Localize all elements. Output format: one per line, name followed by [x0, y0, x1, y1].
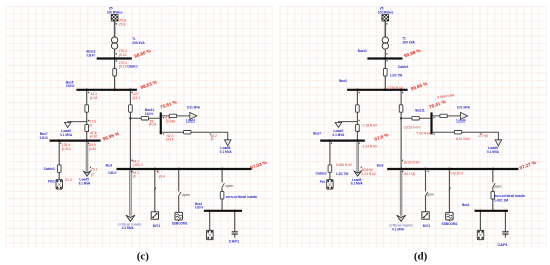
svg-text:0.38 kV: 0.38 kV	[66, 84, 75, 88]
svg-text:(c): (c)	[137, 250, 150, 262]
svg-text:Load4: Load4	[186, 119, 195, 123]
svg-text:Cable2: Cable2	[316, 171, 327, 175]
svg-text:0.1 MVA: 0.1 MVA	[487, 150, 499, 154]
svg-text:7.42 N kV: 7.42 N kV	[416, 131, 431, 135]
svg-text:Bus3: Bus3	[377, 163, 384, 167]
svg-text:0.1 MVA: 0.1 MVA	[220, 150, 232, 154]
svg-text:BVC1: BVC1	[423, 224, 431, 228]
svg-text:-j151.3: -j151.3	[133, 163, 143, 167]
svg-text:200 kVA: 200 kVA	[132, 41, 145, 45]
svg-text:1-3/C 750: 1-3/C 750	[390, 74, 402, 78]
svg-text:j0: j0	[88, 124, 92, 128]
svg-text:0.38 kV: 0.38 kV	[145, 112, 154, 116]
svg-text:Cable2: Cable2	[44, 167, 55, 171]
svg-text:open: open	[182, 193, 190, 197]
svg-text:CAP1: CAP1	[229, 240, 239, 244]
svg-text:0.1 MVA: 0.1 MVA	[333, 133, 345, 137]
svg-text:open: open	[225, 184, 233, 188]
svg-text:6.31 N kV: 6.31 N kV	[456, 137, 471, 141]
svg-text:100 MVAsc: 100 MVAsc	[378, 11, 394, 15]
svg-text:0: 0	[157, 170, 159, 174]
svg-text:j0: j0	[91, 172, 95, 176]
svg-text:-0.7+j0: -0.7+j0	[478, 134, 488, 138]
svg-text:200 kVA: 200 kVA	[403, 40, 416, 44]
svg-text:0+j120.4: 0+j120.4	[451, 171, 464, 175]
svg-text:13.02 N kV: 13.02 N kV	[403, 161, 420, 165]
svg-text:-23.62 N kV: -23.62 N kV	[403, 126, 421, 130]
svg-text:0.084 N kV: 0.084 N kV	[336, 163, 353, 167]
svg-text:0.1 MVA: 0.1 MVA	[351, 182, 363, 186]
svg-text:51.3: 51.3	[65, 178, 72, 182]
svg-text:open: open	[426, 192, 434, 196]
svg-text:j4.19: j4.19	[148, 123, 156, 127]
svg-text:-j0.4: -j0.4	[158, 175, 165, 179]
svg-text:Bus12: Bus12	[358, 49, 367, 53]
svg-text:2.03 N kV: 2.03 N kV	[361, 172, 376, 176]
svg-text:1-3/C 1M: 1-3/C 1M	[494, 199, 508, 203]
svg-text:100 MVAsc: 100 MVAsc	[107, 11, 123, 15]
svg-text:0.01 MVA: 0.01 MVA	[187, 105, 200, 109]
svg-text:non-critical loads: non-critical loads	[494, 194, 525, 198]
svg-text:Cable1: Cable1	[398, 65, 409, 69]
svg-text:-j5.13: -j5.13	[118, 65, 126, 69]
svg-text:BVC1: BVC1	[153, 224, 161, 228]
svg-text:0.38 kV: 0.38 kV	[195, 206, 204, 210]
svg-text:j0.114: j0.114	[61, 147, 71, 151]
svg-text:Bus7: Bus7	[313, 132, 321, 136]
svg-text:PVb2: PVb2	[48, 180, 55, 184]
svg-text:-26.8: -26.8	[118, 22, 126, 26]
svg-text:0.38 kV: 0.38 kV	[40, 136, 49, 140]
svg-text:1-3/C 750: 1-3/C 750	[336, 172, 348, 176]
svg-text:j4.81: j4.81	[88, 147, 96, 151]
svg-text:non-critical loads: non-critical loads	[226, 195, 257, 199]
svg-text:Bus4: Bus4	[462, 203, 469, 207]
svg-text:-j14.1: -j14.1	[132, 96, 140, 100]
svg-text:j10.8: j10.8	[89, 96, 97, 100]
svg-text:-94.1+j0: -94.1+j0	[403, 172, 415, 176]
svg-text:PVb: PVb	[320, 180, 326, 184]
svg-text:SSBCOM1: SSBCOM1	[442, 222, 458, 226]
svg-text:j4.14: j4.14	[165, 137, 173, 141]
svg-text:-j5.13: -j5.13	[118, 53, 126, 57]
svg-text:Load4: Load4	[456, 119, 465, 123]
svg-text:0.01 MVA: 0.01 MVA	[457, 106, 470, 110]
svg-text:j0: j0	[132, 175, 136, 179]
svg-text:0.38 kV: 0.38 kV	[108, 171, 117, 175]
svg-text:0.38 kV: 0.38 kV	[87, 53, 96, 57]
svg-text:-79.1: -79.1	[90, 168, 98, 172]
svg-text:Bus5: Bus5	[339, 79, 347, 83]
svg-text:0.1 MVA: 0.1 MVA	[122, 226, 134, 230]
svg-text:-1.24 N kV: -1.24 N kV	[361, 144, 377, 148]
svg-text:CAP1: CAP1	[497, 243, 507, 247]
svg-text:-j4.92: -j4.92	[89, 135, 97, 139]
svg-text:0.1 MVA: 0.1 MVA	[60, 133, 72, 137]
svg-text:Bus11: Bus11	[415, 109, 424, 113]
svg-text:Cable1: Cable1	[127, 65, 138, 69]
svg-text:-j0.048: -j0.048	[165, 120, 175, 124]
svg-text:0.1 MVA: 0.1 MVA	[79, 181, 91, 185]
svg-text:2.734 N kV: 2.734 N kV	[387, 86, 404, 90]
svg-text:SSBCOM1: SSBCOM1	[172, 222, 188, 226]
svg-text:(d): (d)	[414, 250, 428, 262]
svg-text:open: open	[494, 185, 502, 189]
svg-text:-1.18 N kV: -1.18 N kV	[361, 123, 377, 127]
svg-text:Bus3: Bus3	[106, 163, 113, 167]
svg-text:0.1 MVA: 0.1 MVA	[392, 227, 404, 231]
svg-text:j0: j0	[210, 137, 214, 141]
